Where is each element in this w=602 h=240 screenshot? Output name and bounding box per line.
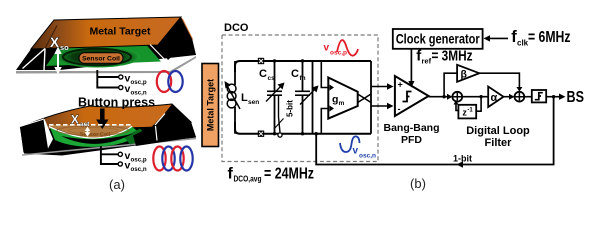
svg-text:(a): (a)	[109, 177, 125, 192]
wire: alpha to adder2	[504, 94, 515, 100]
wire: beta to adder2	[479, 73, 522, 91]
top slab: black body mass	[16, 17, 196, 74]
svg-text:Metal Target: Metal Target	[89, 26, 151, 38]
vosc,p red label	[324, 40, 359, 56]
wire: tank right vertical	[312, 61, 314, 134]
svg-text:-: -	[398, 104, 401, 114]
PFD input stubs with arrowheads	[371, 83, 394, 109]
svg-text:v: v	[324, 43, 330, 54]
label fDCO,avg	[228, 166, 315, 184]
svg-text:= 6MHz: = 6MHz	[528, 29, 571, 46]
port square bottom	[258, 131, 264, 137]
svg-text:Sensor Coil: Sensor Coil	[82, 56, 120, 63]
svg-text:m: m	[339, 100, 345, 107]
label Bang-Bang PFD	[384, 122, 440, 146]
svg-text:v: v	[353, 146, 359, 157]
bottom slab: right end block	[133, 104, 196, 146]
alpha amplifier	[488, 87, 503, 108]
svg-text:so: so	[60, 43, 69, 52]
svg-text:clk: clk	[517, 39, 529, 48]
BS output wire	[546, 89, 584, 106]
switch (5-bit bank)	[274, 95, 295, 137]
caption (a)	[109, 177, 125, 192]
Xact label and dashed line	[49, 115, 133, 137]
beta amplifier	[457, 65, 479, 82]
port square top	[258, 58, 264, 64]
capacitor Cfn	[291, 61, 319, 134]
fref label	[416, 48, 472, 66]
svg-text:β: β	[461, 69, 468, 81]
label Digital Loop Filter	[466, 125, 530, 149]
bottom slab: left end block	[20, 119, 54, 153]
svg-text:Button press: Button press	[78, 96, 155, 110]
PFD comparator U1	[395, 76, 429, 116]
metal target block (b)	[202, 64, 219, 147]
node vosc,n (top)	[125, 83, 147, 97]
wire to oscillator terminals (bottom slab)	[101, 146, 123, 166]
Button press label	[78, 96, 155, 110]
svg-text:= 24MHz: = 24MHz	[264, 166, 314, 183]
svg-text:osc,p: osc,p	[131, 156, 147, 163]
svg-text:1-bit: 1-bit	[453, 154, 472, 164]
1-bit feedback wire	[316, 97, 553, 168]
bottom slab: black body mass	[20, 104, 196, 156]
node vosc,p (top)	[125, 73, 147, 87]
svg-text:DCO,avg: DCO,avg	[234, 175, 262, 184]
svg-text:osc,p: osc,p	[330, 50, 347, 57]
svg-text:act: act	[80, 121, 90, 128]
sensor coil pill label	[79, 53, 123, 63]
wire: PFD output to DLF	[429, 94, 453, 100]
svg-text:-1: -1	[467, 108, 473, 114]
adder2	[515, 92, 525, 102]
svg-text:Metal Target: Metal Target	[206, 79, 216, 131]
svg-text:DCO: DCO	[224, 22, 249, 34]
svg-text:= 3MHz: = 3MHz	[432, 49, 473, 65]
sampler flip-flop	[524, 90, 546, 102]
svg-text:Digital Loop: Digital Loop	[466, 125, 530, 137]
caption (b)	[410, 176, 426, 191]
svg-text:cs: cs	[268, 75, 276, 82]
fref wire from clock generator into PFD	[408, 49, 414, 88]
Xso gap label and white double arrow	[50, 35, 69, 75]
flux rings (top, red+blue)	[157, 71, 183, 92]
bottom slab: pressed orange sheet	[20, 104, 191, 130]
svg-text:X: X	[71, 115, 79, 127]
bottom slab: green board in the dip	[50, 127, 150, 147]
svg-text:osc,n: osc,n	[131, 166, 147, 173]
svg-text:PFD: PFD	[401, 134, 422, 146]
svg-text:osc,p: osc,p	[131, 79, 147, 86]
node vosc,p (bottom)	[125, 150, 147, 164]
svg-text:5-bit: 5-bit	[286, 100, 295, 117]
DCO dashed box	[222, 22, 378, 162]
node vosc,n (bottom)	[125, 160, 147, 174]
svg-text:+: +	[398, 80, 403, 90]
wire: branch up to beta	[444, 73, 457, 97]
z-1 register	[454, 100, 477, 118]
svg-text:Clock generator: Clock generator	[396, 31, 481, 46]
svg-text:C: C	[259, 68, 267, 80]
wire: tank bottom rail	[235, 122, 371, 134]
wire: tank top rail	[235, 61, 371, 72]
svg-text:Filter: Filter	[485, 137, 513, 149]
svg-text:g: g	[332, 94, 338, 106]
capacitor Ccs	[259, 61, 285, 134]
svg-text:Sensor Coil: Sensor Coil	[80, 132, 111, 138]
clock generator box	[393, 29, 483, 49]
svg-text:BS: BS	[567, 89, 585, 106]
svg-text:osc,n: osc,n	[359, 153, 376, 160]
svg-text:(b): (b)	[410, 176, 426, 191]
wire: adder1 to alpha with z-1 tap	[462, 95, 488, 111]
wire to oscillator terminals (top slab)	[97, 70, 123, 90]
top slab: sensor board green top with coil	[46, 45, 161, 68]
adder1	[452, 92, 462, 102]
svg-text:ref: ref	[422, 57, 432, 66]
junction dots	[273, 59, 318, 135]
svg-text:C: C	[291, 68, 299, 80]
svg-text:sen: sen	[248, 99, 259, 106]
vosc,n blue label	[340, 136, 376, 159]
gm amplifier	[321, 61, 357, 134]
bottom slab: brown pressed lens	[49, 125, 133, 138]
fclk label	[511, 28, 570, 48]
button press arrow	[96, 109, 108, 130]
label Metal Target (a-top)	[89, 26, 151, 38]
svg-text:Bang-Bang: Bang-Bang	[384, 122, 440, 134]
inductor Lsen	[225, 61, 260, 134]
top slab: metal target orange top face	[23, 17, 194, 71]
bottom slab: black sag shadow crescent	[61, 134, 133, 144]
cross-coupled output wires	[358, 61, 371, 134]
flux rings (bottom, 4x)	[153, 147, 192, 171]
svg-text:fn: fn	[300, 75, 306, 82]
svg-text:α: α	[491, 92, 498, 104]
fclk arrow into clock generator	[484, 35, 509, 41]
bottom slab: white lens edge arc	[49, 126, 132, 138]
svg-text:L: L	[241, 92, 248, 104]
